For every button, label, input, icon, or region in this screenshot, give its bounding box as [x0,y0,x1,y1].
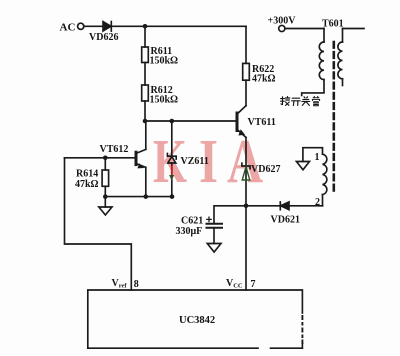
node VZ611 bottom [170,194,175,199]
transformer feedback winding [323,154,327,194]
ground below R614 [104,197,106,207]
svg-text:7: 7 [251,279,256,290]
transformer core [332,42,335,195]
node VT612 emitter [144,194,149,199]
wire R612 to node [144,101,146,121]
node Vcc junction [244,204,249,209]
svg-text:T601: T601 [322,19,344,30]
wire Vref run [65,158,132,290]
wire to C621 [214,206,246,224]
transformer T601 primary [285,28,324,30]
svg-text:47kΩ: 47kΩ [75,179,99,190]
diode VD621 [279,202,281,210]
node R614 top [103,156,108,161]
node VZ611 top [170,119,175,124]
wire R611 to R612 [144,63,146,86]
svg-text:A: A [227,128,263,196]
svg-text:UC3842: UC3842 [179,315,215,326]
wire base rail to VT611 [145,120,236,122]
wire top rail [111,25,246,27]
zener VZ611 [171,121,173,156]
transistor VT611 [238,106,247,114]
node divider/base rail [143,119,148,124]
resistor R614 [104,158,106,170]
node top rail / R611 [143,24,148,29]
svg-text:VD621: VD621 [271,215,300,226]
svg-text:330μF: 330μF [176,226,203,237]
wire emitter rail [105,196,172,198]
svg-text:AC: AC [60,22,76,34]
current arrow (red annotation) [171,167,173,177]
svg-text:VD626: VD626 [89,32,118,43]
ground at winding pin 1 [296,162,309,170]
svg-text:VT611: VT611 [248,117,276,128]
svg-text:47kΩ: 47kΩ [252,74,276,85]
IC UC3842 box [88,290,303,348]
watermark [153,128,263,196]
transformer T601 secondary [343,28,365,30]
svg-text:C621: C621 [181,216,203,227]
transistor VT612 [145,121,147,149]
label 接开关管 (drawn strokes) [281,96,320,105]
svg-text:8: 8 [134,279,139,290]
resistor R622 [245,26,247,63]
svg-text:VD627: VD627 [251,164,280,175]
AC terminal [78,23,84,29]
svg-text:VZ611: VZ611 [181,156,209,167]
capacitor C621 [207,223,223,225]
node R614 bottom [103,194,108,199]
resistor R611 [144,26,146,47]
ground below C621 [207,244,221,253]
svg-text:VCC: VCC [226,278,243,290]
svg-text:150kΩ: 150kΩ [150,95,179,106]
svg-text:VT612: VT612 [100,144,129,155]
resistor R612 [142,85,149,101]
zener VD627 [242,163,250,169]
svg-text:1: 1 [315,152,320,163]
svg-text:2: 2 [315,197,320,208]
svg-text:+300V: +300V [268,16,297,27]
svg-text:Vref: Vref [112,278,128,290]
diode VD626 [103,22,111,31]
svg-text:150kΩ: 150kΩ [150,56,179,67]
wire AC to diode [84,25,103,27]
wire Vcc to VD621 [246,205,280,207]
